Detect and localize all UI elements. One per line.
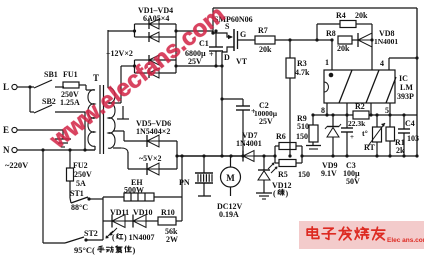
svg-text:Elec ans.com: Elec ans.com	[387, 237, 424, 244]
svg-text:510: 510	[297, 122, 309, 131]
svg-text:4: 4	[380, 59, 384, 68]
svg-text:L: L	[3, 82, 9, 92]
svg-text:−12V×2: −12V×2	[106, 49, 133, 58]
svg-text:G: G	[240, 30, 246, 39]
svg-text:R3: R3	[297, 59, 307, 68]
svg-text:1N4001: 1N4001	[236, 139, 262, 148]
svg-text:RT: RT	[364, 143, 375, 152]
svg-text:R6: R6	[276, 132, 286, 141]
svg-text:R5: R5	[278, 170, 288, 179]
svg-text:C4: C4	[405, 119, 415, 128]
svg-text:150: 150	[298, 170, 310, 179]
svg-text:SB1: SB1	[44, 70, 58, 79]
svg-text:+: +	[209, 50, 214, 59]
svg-text:25V: 25V	[259, 117, 273, 126]
svg-text:4.7k: 4.7k	[295, 68, 310, 77]
svg-text:M: M	[226, 173, 235, 183]
svg-text:ST1: ST1	[70, 189, 84, 198]
svg-text:20k: 20k	[259, 45, 272, 54]
svg-text:393P: 393P	[397, 92, 414, 101]
svg-text:R2: R2	[355, 102, 365, 111]
svg-text:PN: PN	[179, 178, 190, 187]
svg-text:88°C: 88°C	[71, 203, 88, 212]
svg-text:R8: R8	[326, 29, 336, 38]
svg-text:(: (	[273, 189, 276, 198]
svg-text:~5V×2: ~5V×2	[139, 154, 162, 163]
svg-text:500W: 500W	[124, 186, 144, 195]
svg-text:IC: IC	[399, 74, 408, 83]
svg-text:20k: 20k	[355, 11, 368, 20]
svg-text:): )	[133, 245, 136, 255]
svg-text:9.1V: 9.1V	[321, 169, 337, 178]
svg-text:2W: 2W	[166, 235, 178, 244]
svg-text:FU2: FU2	[73, 161, 88, 170]
svg-text:(: (	[112, 233, 115, 242]
svg-text:+: +	[350, 133, 354, 141]
svg-text:250V: 250V	[74, 170, 92, 179]
svg-text:5: 5	[385, 106, 389, 115]
svg-text:5A: 5A	[76, 179, 86, 188]
svg-text:R10: R10	[161, 208, 175, 217]
svg-text:t°: t°	[362, 129, 368, 138]
svg-text:103: 103	[407, 134, 419, 143]
svg-text:1: 1	[325, 58, 329, 67]
svg-text:VD11: VD11	[110, 208, 129, 217]
svg-text:1.25A: 1.25A	[60, 98, 80, 107]
svg-text:6A05×4: 6A05×4	[143, 14, 169, 23]
svg-text:8: 8	[321, 106, 325, 115]
svg-text:ST2: ST2	[84, 229, 98, 238]
svg-text:T: T	[93, 73, 99, 83]
svg-text:R7: R7	[258, 26, 268, 35]
svg-text:~220V: ~220V	[5, 160, 29, 170]
svg-text:SB2: SB2	[42, 97, 56, 106]
svg-text:VD10: VD10	[133, 208, 153, 217]
svg-text:VT: VT	[236, 57, 248, 66]
svg-text:20k: 20k	[337, 44, 350, 53]
svg-text:LM: LM	[400, 83, 413, 92]
svg-text:150: 150	[296, 132, 308, 141]
svg-text:): )	[286, 189, 289, 198]
svg-text:22.3k: 22.3k	[348, 119, 366, 128]
svg-text:) 1N4007: ) 1N4007	[124, 233, 154, 242]
svg-text:95°C(: 95°C(	[74, 245, 95, 255]
svg-text:25V: 25V	[188, 57, 202, 66]
svg-text:E: E	[3, 125, 9, 135]
svg-text:50V: 50V	[346, 177, 360, 186]
svg-text:D: D	[224, 53, 230, 62]
svg-text:R4: R4	[336, 11, 346, 20]
svg-text:1N4001: 1N4001	[374, 37, 398, 46]
svg-text:1N5404×2: 1N5404×2	[136, 127, 170, 136]
svg-text:N: N	[3, 145, 10, 155]
svg-text:FU1: FU1	[63, 70, 78, 79]
svg-text:0.19A: 0.19A	[219, 210, 239, 219]
